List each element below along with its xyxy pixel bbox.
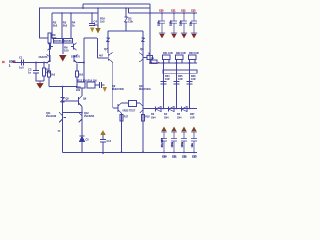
power arrow C32 — [181, 127, 186, 132]
svg-text:47u: 47u — [94, 23, 99, 27]
junction bottom line — [81, 112, 83, 114]
wire VAS step — [97, 38, 99, 58]
transistor Q8 — [139, 53, 143, 109]
svg-text:2k2: 2k2 — [63, 24, 68, 28]
power bar C32 — [181, 131, 187, 133]
bottom right cap bank — [161, 132, 197, 153]
ground triangle C21 — [171, 34, 176, 39]
junction rail caps — [161, 12, 163, 14]
svg-text:R18: R18 — [145, 116, 150, 119]
current source arrow I1 tail — [59, 55, 67, 62]
resistor R1 — [43, 68, 46, 76]
wire R23 stubs — [190, 60, 196, 64]
transistor Q3 mirror — [48, 43, 54, 50]
svg-text:2k2: 2k2 — [51, 74, 56, 77]
wire driver to diode line — [143, 108, 197, 110]
wire V+ top rail — [83, 3, 150, 5]
wire second rail — [39, 7, 150, 9]
junction rail drops — [61, 12, 62, 13]
wire cap bottom — [102, 143, 104, 154]
wire tail bottom bus — [49, 86, 77, 88]
power flag arrow bottom mid — [100, 130, 106, 135]
svg-text:4k7: 4k7 — [99, 55, 104, 58]
svg-text:C14: C14 — [107, 140, 112, 143]
junction rail right — [149, 12, 150, 13]
capacitor C14 — [100, 140, 106, 143]
resistor R28 long box — [163, 70, 197, 73]
svg-text:BC556: BC556 — [64, 40, 72, 43]
wire right rail — [129, 12, 198, 14]
diode D1 — [80, 136, 85, 142]
svg-text:1: 1 — [9, 65, 11, 68]
capacitor C11 — [174, 82, 180, 85]
capacitor C23 — [191, 13, 197, 33]
capacitor C6 — [100, 82, 105, 88]
resistor R23 — [189, 55, 197, 60]
transistor Q4 mirror — [71, 43, 77, 50]
resistor R13 box — [77, 82, 85, 88]
svg-text:100n: 100n — [181, 141, 184, 147]
capacitor C10 — [161, 82, 167, 85]
svg-text:1N4: 1N4 — [151, 117, 156, 120]
svg-text:R13 100: R13 100 — [78, 79, 88, 82]
svg-text:C30: C30 — [162, 156, 167, 159]
wire driver base L — [113, 107, 118, 109]
wire output main — [150, 4, 197, 63]
svg-text:22k: 22k — [52, 36, 57, 40]
svg-text:47k: 47k — [46, 71, 51, 75]
ground triangle C20 — [159, 34, 164, 39]
wire R8 down — [76, 77, 78, 87]
wire R22 stubs — [177, 60, 183, 64]
wire tail stem — [62, 43, 64, 54]
wire Q8 base stub — [143, 57, 147, 59]
transistor Q10 driver — [140, 103, 144, 113]
wire predriver L collector — [107, 31, 109, 53]
ground C20 bar — [159, 32, 165, 34]
resistor R5 box — [54, 39, 63, 44]
svg-text:2SA1943: 2SA1943 — [46, 115, 57, 118]
wire R9 to node — [49, 43, 51, 61]
svg-text:0R22 TEST: 0R22 TEST — [123, 110, 136, 113]
polarized cap arrow tan x92 — [90, 28, 95, 33]
svg-text:2k2: 2k2 — [79, 74, 84, 77]
pin tick L1 left — [151, 62, 152, 63]
current source arrow I2 — [95, 28, 100, 34]
svg-text:C32: C32 — [182, 156, 187, 159]
transistor Q5 marks — [61, 98, 65, 103]
transistor Q6 — [79, 96, 83, 107]
wire rail drop x62 — [61, 13, 63, 39]
svg-text:10u: 10u — [190, 21, 193, 26]
svg-text:C22: C22 — [181, 10, 186, 13]
wire zobel drop 1 — [163, 63, 165, 109]
wire VAS top — [84, 37, 97, 39]
top right cap bank — [159, 13, 197, 33]
svg-text:Q7: Q7 — [104, 47, 108, 51]
wire output link — [63, 112, 83, 114]
wire input — [15, 62, 48, 64]
resistor R9 — [48, 33, 51, 43]
capacitor C30 — [161, 132, 167, 153]
ground triangle C23 — [191, 34, 196, 39]
svg-text:47u 63V: 47u 63V — [161, 138, 164, 148]
wire rail drop x71 — [70, 13, 72, 39]
junction rail x98 — [97, 7, 98, 8]
capacitor C33 — [191, 132, 197, 153]
wire cap branch bottom mid — [102, 135, 104, 139]
ground C22 bar — [181, 32, 187, 34]
svg-text:2SA970: 2SA970 — [39, 56, 48, 59]
svg-text:Q8: Q8 — [140, 47, 144, 51]
capacitor C2 — [33, 71, 39, 74]
svg-text:1k: 1k — [72, 24, 75, 28]
svg-text:Q6: Q6 — [83, 98, 87, 101]
svg-text:BC556: BC556 — [54, 40, 62, 43]
wire collector bridge — [122, 102, 140, 104]
svg-text:C21: C21 — [171, 10, 176, 13]
svg-text:1N4: 1N4 — [164, 117, 169, 120]
pin tick L1 right — [158, 62, 159, 63]
wire zobel drop 3 — [189, 63, 191, 109]
transistor Q2 — [74, 55, 78, 64]
svg-text:10R: 10R — [191, 78, 196, 81]
wire bottom rail — [63, 152, 198, 154]
transistor Q12 output marks — [79, 113, 83, 123]
wire left rail — [52, 12, 98, 14]
svg-text:Q5: Q5 — [66, 98, 70, 101]
resistor R21 — [163, 55, 171, 60]
svg-text:R21 10R: R21 10R — [163, 52, 173, 55]
ground input — [37, 81, 43, 88]
wire zener drop — [125, 8, 127, 17]
resistor R12 — [129, 101, 137, 107]
resistor R7 — [48, 71, 51, 77]
capacitor C1 — [22, 60, 24, 66]
resistor R18 — [142, 115, 145, 122]
wire input node down C2 — [35, 63, 37, 71]
ground C23 bar — [191, 32, 197, 34]
diode D2 zener — [125, 17, 128, 31]
svg-text:100n: 100n — [170, 20, 173, 26]
svg-text:C33: C33 — [192, 156, 197, 159]
wire Q6 base — [63, 100, 79, 102]
svg-text:1k5: 1k5 — [100, 20, 105, 24]
wire rail drop x52 — [51, 13, 53, 39]
junction bottom caps — [163, 152, 164, 153]
transistor Q1 — [47, 55, 51, 64]
resistor R11 — [147, 56, 153, 60]
wire zobel drop 2 — [176, 63, 178, 109]
svg-text:10R: 10R — [190, 117, 195, 120]
wire Q6 collector up — [81, 88, 83, 96]
capacitor C22 — [181, 13, 187, 33]
wire tail — [62, 43, 64, 51]
junction tail bus — [62, 86, 64, 88]
power arrow C31 — [171, 127, 176, 132]
wire rail step — [82, 4, 84, 8]
power bar C33 — [191, 131, 197, 133]
wire predriver R collector — [142, 31, 144, 53]
wire cap branch x92 — [91, 13, 93, 23]
polarized cap arrow tan bias — [103, 87, 108, 92]
wire current source drop — [97, 8, 99, 28]
capacitor C31 — [171, 132, 177, 153]
svg-text:10R: 10R — [165, 78, 170, 81]
capacitor C12 — [187, 82, 193, 85]
svg-text:CON1: CON1 — [9, 60, 16, 63]
ground C21 bar — [171, 32, 177, 34]
svg-text:22k: 22k — [76, 89, 81, 92]
svg-text:R14 100: R14 100 — [88, 79, 98, 82]
svg-text:2SC5200: 2SC5200 — [84, 115, 95, 118]
junction fb node — [83, 62, 85, 64]
transistor Q9 driver — [118, 103, 122, 113]
svg-text:1N4: 1N4 — [177, 117, 182, 120]
resistor R22 — [176, 55, 184, 60]
diode D4 — [169, 107, 175, 112]
wire driver emitter L — [121, 113, 123, 152]
svg-text:C4: C4 — [94, 20, 98, 24]
wire VAS column — [62, 87, 64, 153]
wire bias box top — [108, 30, 143, 32]
power arrow C30 — [161, 127, 166, 132]
wire R21 stubs — [164, 60, 170, 64]
inductor L1 — [151, 60, 157, 63]
resistor R6 box — [64, 39, 73, 44]
svg-text:MJE15030: MJE15030 — [112, 88, 124, 91]
transistor Q11 output marks — [59, 113, 66, 123]
svg-text:C1: C1 — [19, 56, 23, 60]
svg-text:R23 10R: R23 10R — [189, 52, 199, 55]
junction diode line — [163, 108, 164, 109]
svg-text:1n: 1n — [28, 71, 31, 75]
junction base Q1 — [49, 60, 51, 62]
svg-text:2k2: 2k2 — [53, 24, 58, 28]
svg-text:Y1: Y1 — [58, 130, 62, 133]
wire Q2 collector down — [76, 64, 78, 71]
diode D3 — [156, 107, 162, 112]
svg-text:100: 100 — [64, 49, 69, 53]
resistor R17 — [120, 115, 123, 122]
junction input node 1 — [35, 62, 37, 64]
wire R7 down — [48, 77, 50, 87]
resistor R8 — [76, 71, 79, 77]
svg-text:R22 10R: R22 10R — [176, 52, 186, 55]
junction rail x126 — [125, 7, 126, 8]
diode DL marks — [106, 38, 109, 42]
wire feedback left vertical — [40, 8, 49, 38]
svg-text:100n: 100n — [180, 20, 183, 26]
svg-text:C5: C5 — [86, 139, 90, 142]
junction rail step — [82, 7, 84, 9]
ground triangle C22 — [181, 34, 186, 39]
power bar C31 — [171, 131, 177, 133]
svg-text:2SA970: 2SA970 — [71, 56, 80, 59]
wire predriver base — [98, 57, 109, 59]
capacitor C4 — [89, 24, 95, 26]
svg-text:C2k: C2k — [128, 20, 133, 24]
wire Q7 emitter down — [112, 62, 114, 108]
wire rail jog — [128, 8, 130, 13]
capacitor C20 — [159, 13, 165, 33]
wire Q2 base — [78, 62, 85, 64]
capacitor C32 — [181, 132, 187, 153]
wire driver emitter R — [142, 112, 144, 152]
svg-text:1u0: 1u0 — [19, 66, 24, 70]
diode DR marks — [141, 38, 144, 42]
svg-text:C20: C20 — [159, 10, 164, 13]
svg-text:C23: C23 — [191, 10, 196, 13]
resistor R14 box — [87, 82, 95, 88]
junction zobel — [163, 62, 165, 64]
wire Q6 emitter col — [81, 107, 83, 153]
wire Q1 collector down — [48, 64, 50, 71]
wire C2 bottom — [36, 74, 44, 82]
wire R1 bottom — [43, 76, 45, 81]
svg-text:100n: 100n — [158, 20, 161, 26]
svg-text:C31: C31 — [172, 156, 177, 159]
wire feedback column — [83, 38, 85, 82]
junction output node — [149, 62, 151, 64]
input pin tick — [13, 62, 15, 63]
wire bias right — [95, 84, 99, 86]
power arrow C33 — [191, 127, 196, 132]
diode D5 — [182, 107, 188, 112]
svg-text:100n: 100n — [171, 141, 174, 147]
power bar C30 — [161, 131, 167, 133]
junction input node 2 — [43, 62, 45, 64]
capacitor C21 — [171, 13, 177, 33]
transistor Q7 — [108, 53, 112, 63]
svg-text:10R: 10R — [178, 78, 183, 81]
svg-text:IN: IN — [2, 60, 5, 64]
svg-text:MJE15031: MJE15031 — [139, 88, 151, 91]
wire R1 top — [43, 63, 45, 69]
svg-text:10u: 10u — [191, 143, 194, 148]
svg-text:R17: R17 — [124, 116, 129, 119]
svg-text:L1: L1 — [151, 57, 154, 60]
